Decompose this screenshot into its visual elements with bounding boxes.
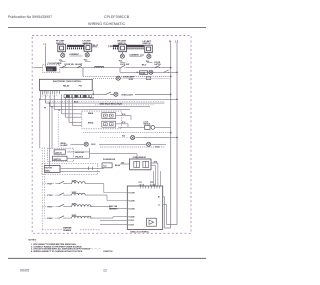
- wire row y144.3 left: [71, 143, 84, 145]
- vertical jog row1-row2: [119, 68, 121, 73]
- right margin riser 2: [166, 205, 168, 225]
- bus L2 bottom corner: [167, 224, 177, 226]
- wire row 4 right with jog into ESEC: [89, 217, 113, 219]
- vertical wire x49.4 down to MDL: [48, 103, 50, 167]
- svg-text:BK-6: BK-6: [142, 65, 147, 67]
- wire right to bus: [135, 93, 171, 95]
- wire row3: [83, 75, 171, 77]
- wire EOC right stub down: [92, 90, 94, 94]
- svg-text:UNLATCH: UNLATCH: [75, 155, 84, 158]
- svg-text:W-52: W-52: [91, 144, 95, 146]
- wire row1 left segment: [34, 67, 43, 69]
- plunger switch box: [102, 163, 112, 168]
- svg-text:ESEC 30 CONTROL: ESEC 30 CONTROL: [131, 232, 150, 234]
- svg-text:9: 9: [56, 95, 57, 97]
- warmer wire bottom: [42, 229, 62, 231]
- lock motor circle: [151, 126, 155, 130]
- junction dot row1-N: [170, 67, 172, 69]
- motor door latch MDL box: [44, 166, 60, 173]
- left dashed riser 2: [43, 148, 45, 219]
- oven sensor box: [130, 159, 151, 170]
- svg-text:BAKE RELAY BROIL RELAY: BAKE RELAY BROIL RELAY: [100, 102, 124, 105]
- wire row1 mid: [60, 67, 120, 69]
- svg-text:3: 3: [44, 95, 45, 97]
- svg-text:DOOR SW: DOOR SW: [64, 64, 74, 66]
- bake relay contact box: [102, 113, 116, 119]
- header rule: [8, 27, 206, 29]
- wire row y144.3 right: [151, 143, 166, 145]
- svg-text:HI-LIMIT: HI-LIMIT: [61, 145, 69, 147]
- ESEC right tick lower: [163, 204, 167, 206]
- surface element B-C (hatched bar): [113, 45, 119, 47]
- wire limiter A to lamp: [61, 52, 64, 54]
- left dashed riser 1: [41, 148, 43, 230]
- wire stub left of limiter D: [140, 54, 144, 56]
- svg-text:L1: L1: [44, 42, 48, 46]
- svg-text:W-14: W-14: [90, 97, 94, 100]
- svg-text:N.O.: N.O.: [103, 166, 107, 168]
- long wire row y132.7: [83, 132, 171, 134]
- switch S5 on row2: [164, 70, 169, 73]
- svg-text:12: 12: [103, 269, 107, 273]
- switch S1 on row1: [61, 65, 66, 68]
- svg-text:P2-6 W: P2-6 W: [129, 224, 135, 226]
- svg-text:5: 5: [47, 95, 48, 97]
- vertical wire x39.8 down: [39, 99, 41, 148]
- svg-text:MOTOR: MOTOR: [45, 168, 52, 170]
- latch indicator lamp: [147, 142, 151, 146]
- svg-text:HI-LIMIT: HI-LIMIT: [75, 64, 83, 66]
- vertical wire x65.3: [64, 98, 66, 118]
- svg-text:L1: L1: [158, 205, 160, 207]
- limiter A (box with inner square): [58, 44, 66, 51]
- lock indicator lamp: [131, 136, 135, 140]
- wire corner y122.3: [69, 121, 82, 123]
- lock switch box: [145, 125, 150, 129]
- svg-text:HARNESS: HARNESS: [109, 207, 118, 210]
- svg-text:W-8: W-8: [121, 162, 124, 164]
- wire limiter C lamp stub: [121, 52, 123, 54]
- latch continuation wire: [90, 153, 138, 155]
- dashed wire row y101.2: [45, 100, 165, 102]
- svg-text:P2-2 BK: P2-2 BK: [129, 200, 136, 202]
- wire row y129.5 to components: [118, 126, 145, 128]
- svg-text:R-32: R-32: [122, 122, 126, 124]
- svg-text:BAKE: BAKE: [88, 112, 94, 115]
- svg-text:BROIL: BROIL: [88, 122, 94, 124]
- svg-text:4. WIRING SUBJECT TO CHANGE WI: 4. WIRING SUBJECT TO CHANGE WITHOUT NOTI…: [31, 250, 83, 253]
- ESEC lower wires left: [100, 219, 127, 221]
- svg-text:OVEN LIGHT: OVEN LIGHT: [121, 94, 134, 96]
- wire row 2 right with jog into ESEC: [85, 194, 107, 196]
- svg-text:CPLEF398CCB: CPLEF398CCB: [104, 15, 130, 19]
- svg-text:BK-8: BK-8: [74, 102, 78, 104]
- latch wires right: [67, 151, 90, 153]
- wire row 1: [64, 183, 72, 185]
- wire to lamp: [111, 93, 114, 95]
- relay assembly dashed box: [82, 111, 122, 129]
- EOC pin stubs below: [40, 90, 59, 94]
- wire row y147: [100, 146, 165, 148]
- wire L1 vertical drop: [45, 46, 47, 68]
- svg-text:P2-4 BK: P2-4 BK: [129, 215, 136, 218]
- wire limiter B lamp stub: [86, 51, 88, 53]
- fuse F1 box on row2: [140, 71, 148, 75]
- element C hatched bar: [127, 45, 144, 49]
- svg-text:DRAWER: DRAWER: [63, 229, 72, 232]
- wire row1 right: [126, 67, 171, 69]
- svg-text:P2-5 W: P2-5 W: [129, 220, 135, 222]
- ESEC right tick upper: [163, 196, 165, 198]
- oven lamp: [116, 76, 120, 80]
- warmer wire right: [80, 229, 100, 231]
- svg-text:P2-1 BK: P2-1 BK: [129, 192, 136, 194]
- switch S2 on row1: [77, 65, 82, 68]
- wire row 3: [64, 206, 72, 208]
- riser taps to rows: [42, 183, 56, 185]
- wire ladder row y109.6: [54, 109, 130, 111]
- wire stub right of limiter B with label: [92, 46, 97, 48]
- wire corner y125.7: [73, 125, 82, 127]
- switch S6 oven light: [106, 92, 111, 95]
- wire corner y117.2: [65, 116, 82, 118]
- svg-text:LATCH SW: LATCH SW: [75, 151, 84, 154]
- MDL pin ticks: [88, 167, 90, 171]
- footer rule: [8, 257, 206, 259]
- sensor wires right: [151, 162, 158, 164]
- svg-text:Publication No 5995435957: Publication No 5995435957: [8, 15, 52, 19]
- latch switch 1 box: [54, 150, 65, 154]
- schematic dashed border: [32, 36, 191, 234]
- svg-text:P8GY: P8GY: [47, 207, 53, 209]
- svg-text:09/05: 09/05: [20, 269, 29, 273]
- wire row y144.3 mid: [99, 143, 146, 145]
- infinite switch row 1: [59, 181, 64, 184]
- wire limiter D lamp stub: [148, 53, 150, 55]
- EOC pin micro labels: [40, 95, 58, 98]
- limiter B: [84, 44, 92, 51]
- junction dot row2-L2: [176, 72, 178, 74]
- svg-text:N: N: [169, 39, 171, 43]
- vertical wire x69: [68, 98, 70, 123]
- hi-limit lamp: [84, 142, 88, 146]
- svg-text:LATCH: LATCH: [154, 63, 161, 66]
- svg-text:7: 7: [52, 95, 53, 97]
- wire row 2: [64, 194, 72, 196]
- wire row 3 right with jog into ESEC: [89, 206, 110, 208]
- right margin riser 1: [163, 197, 165, 229]
- indicator lamp B: [85, 53, 89, 57]
- svg-text:P7GY: P7GY: [47, 195, 53, 197]
- oven light lamp: [114, 92, 118, 96]
- coil K1 on row1: [95, 66, 104, 67]
- indicator lamp D: [147, 54, 151, 58]
- wire oven-light row y94.6: [93, 93, 106, 95]
- wire ladder row y103.1: [45, 102, 164, 104]
- terminal strip P1: [64, 95, 91, 98]
- ESEC top pin ticks: [140, 186, 160, 189]
- svg-text:ELECTRONIC OVEN CONTROL: ELECTRONIC OVEN CONTROL: [53, 81, 82, 83]
- limiter C: [119, 44, 127, 51]
- svg-text:LOCK SW: LOCK SW: [120, 64, 129, 66]
- vertical wire x52 down to latch box: [51, 107, 53, 149]
- svg-text:P6GY: P6GY: [47, 184, 53, 186]
- svg-text:C0467790: C0467790: [103, 250, 113, 253]
- MDL wires right: [60, 167, 104, 169]
- latch switch 2 box: [53, 156, 68, 161]
- svg-text:P9GY: P9GY: [47, 218, 53, 220]
- indicator lamp C: [120, 54, 124, 58]
- svg-text:888: 888: [47, 68, 53, 71]
- indicator lamp A: [61, 53, 65, 57]
- svg-text:W-36: W-36: [129, 79, 134, 81]
- relay box right pins: [116, 115, 131, 117]
- svg-text:LATCH: LATCH: [55, 151, 62, 154]
- svg-text:R-30: R-30: [122, 114, 126, 116]
- amplifier triangle: [149, 220, 154, 224]
- svg-text:NOTES:: NOTES:: [29, 240, 37, 242]
- wire row 1 right with jog into ESEC: [85, 183, 104, 185]
- svg-text:P3: P3: [44, 107, 46, 109]
- wire ladder row y99.3: [40, 98, 177, 100]
- ESEC internal amplifier box: [147, 218, 157, 226]
- svg-text:SWITCH: SWITCH: [53, 159, 61, 161]
- dashed wire row y104.9 with labels: [95, 104, 155, 106]
- svg-text:P27: P27: [79, 85, 83, 87]
- bus N vertical: [170, 43, 172, 228]
- svg-text:W-5: W-5: [122, 136, 125, 138]
- infinite switch row 2: [59, 193, 64, 196]
- switch S3 on row1: [120, 65, 125, 68]
- latch vertical jog: [89, 148, 91, 158]
- broil relay contact box: [102, 121, 116, 127]
- svg-text:PLUNGER SW: PLUNGER SW: [103, 159, 115, 161]
- dashed lamp wire row4: [93, 77, 116, 79]
- wire ladder row y106.7: [50, 106, 150, 108]
- clock display: [46, 66, 57, 71]
- infinite switch row 4: [59, 216, 64, 219]
- lamp L2a on row2: [149, 70, 153, 74]
- bus N bottom corner: [164, 227, 170, 229]
- ESEC control box: [127, 186, 162, 229]
- vertical wire x58.2 dashed riser: [57, 110, 59, 149]
- junction dot row2 mid: [137, 72, 138, 73]
- svg-text:BR-44: BR-44: [115, 164, 120, 167]
- svg-text:RELAY: RELAY: [63, 84, 70, 87]
- svg-text:P2-3 BK: P2-3 BK: [129, 208, 136, 210]
- vertical wire x61.5: [61, 94, 63, 114]
- wire corner y113.8: [62, 113, 82, 115]
- svg-text:N1: N1: [158, 197, 160, 199]
- svg-text:(MDL): (MDL): [45, 170, 50, 172]
- svg-text:L2: L2: [175, 39, 179, 43]
- switch S4 on row1 right: [155, 65, 160, 68]
- vertical wire x72.7: [72, 98, 74, 126]
- infinite switch row 3: [59, 204, 64, 207]
- junction dot right of strip: [92, 94, 94, 96]
- surface element A (hatched bar): [67, 45, 84, 49]
- wire row 4: [64, 217, 72, 219]
- sensor wire left: [120, 163, 130, 165]
- dashed wire row y137.4: [100, 136, 130, 138]
- MDL dashed enclosure: [42, 164, 98, 175]
- svg-text:WIRING SCHEMATIC: WIRING SCHEMATIC: [88, 22, 126, 26]
- svg-text:OVEN LAMP: OVEN LAMP: [123, 76, 135, 79]
- bus L2 vertical: [176, 43, 178, 225]
- svg-text:2: 2: [42, 96, 43, 98]
- svg-text:FUSE: FUSE: [140, 73, 146, 75]
- junction dot row3-N: [170, 76, 172, 78]
- wire row3 vertical drop: [82, 68, 84, 77]
- electronic oven control EOC box: [39, 79, 92, 90]
- wire row2: [120, 71, 177, 73]
- svg-text:BK-12: BK-12: [93, 45, 99, 47]
- wire right of lamp: [135, 136, 177, 138]
- lamp row connector box: [147, 77, 151, 80]
- limiter D: [145, 45, 153, 52]
- latch assembly dashed box: [48, 148, 74, 161]
- sensor sub-box 2: [143, 161, 149, 167]
- clock dashed box: [43, 64, 60, 72]
- sensor sub-box 1: [134, 161, 140, 167]
- sensor drop wires to ESEC: [155, 165, 157, 171]
